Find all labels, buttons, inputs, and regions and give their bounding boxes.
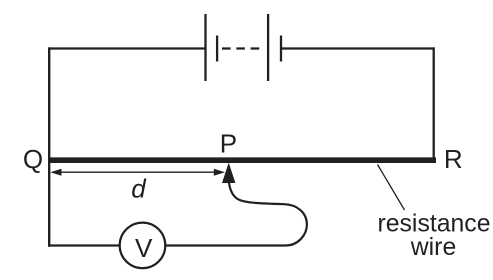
battery B1 cell 2 long plate: [267, 14, 269, 81]
svg-text:P: P: [220, 129, 237, 159]
battery B1 cell 1 long plate: [204, 14, 206, 81]
dimension arrow for distance d (double headed): [50, 169, 225, 176]
leader line to resistance wire label: [378, 165, 405, 211]
wire: right vertical (top corner to node R): [433, 47, 435, 162]
label: resistance wire: [377, 210, 490, 261]
battery B1 cell 2 short plate: [280, 36, 282, 62]
svg-text:wire: wire: [410, 234, 456, 261]
wire: flexible lead from jockey to voltmeter: [166, 182, 307, 246]
voltmeter V1: [120, 223, 166, 269]
svg-text:R: R: [444, 144, 463, 174]
svg-text:V: V: [135, 233, 153, 263]
wire: bottom segment (left corner to voltmeter): [48, 244, 121, 246]
wire: top right segment (battery to right corner): [282, 47, 435, 49]
battery B1 cell 1 short plate: [216, 36, 218, 62]
svg-text:Q: Q: [23, 144, 43, 174]
wire: top left segment (left corner to battery): [48, 47, 205, 49]
wire: left vertical (top corner to bottom corner): [48, 47, 50, 246]
svg-text:d: d: [131, 173, 147, 203]
dashed wire: additional cells of battery: [222, 47, 259, 49]
jockey (sliding contact) arrow at P: [222, 163, 235, 183]
resistance wire Q-R (thick): [48, 157, 436, 163]
